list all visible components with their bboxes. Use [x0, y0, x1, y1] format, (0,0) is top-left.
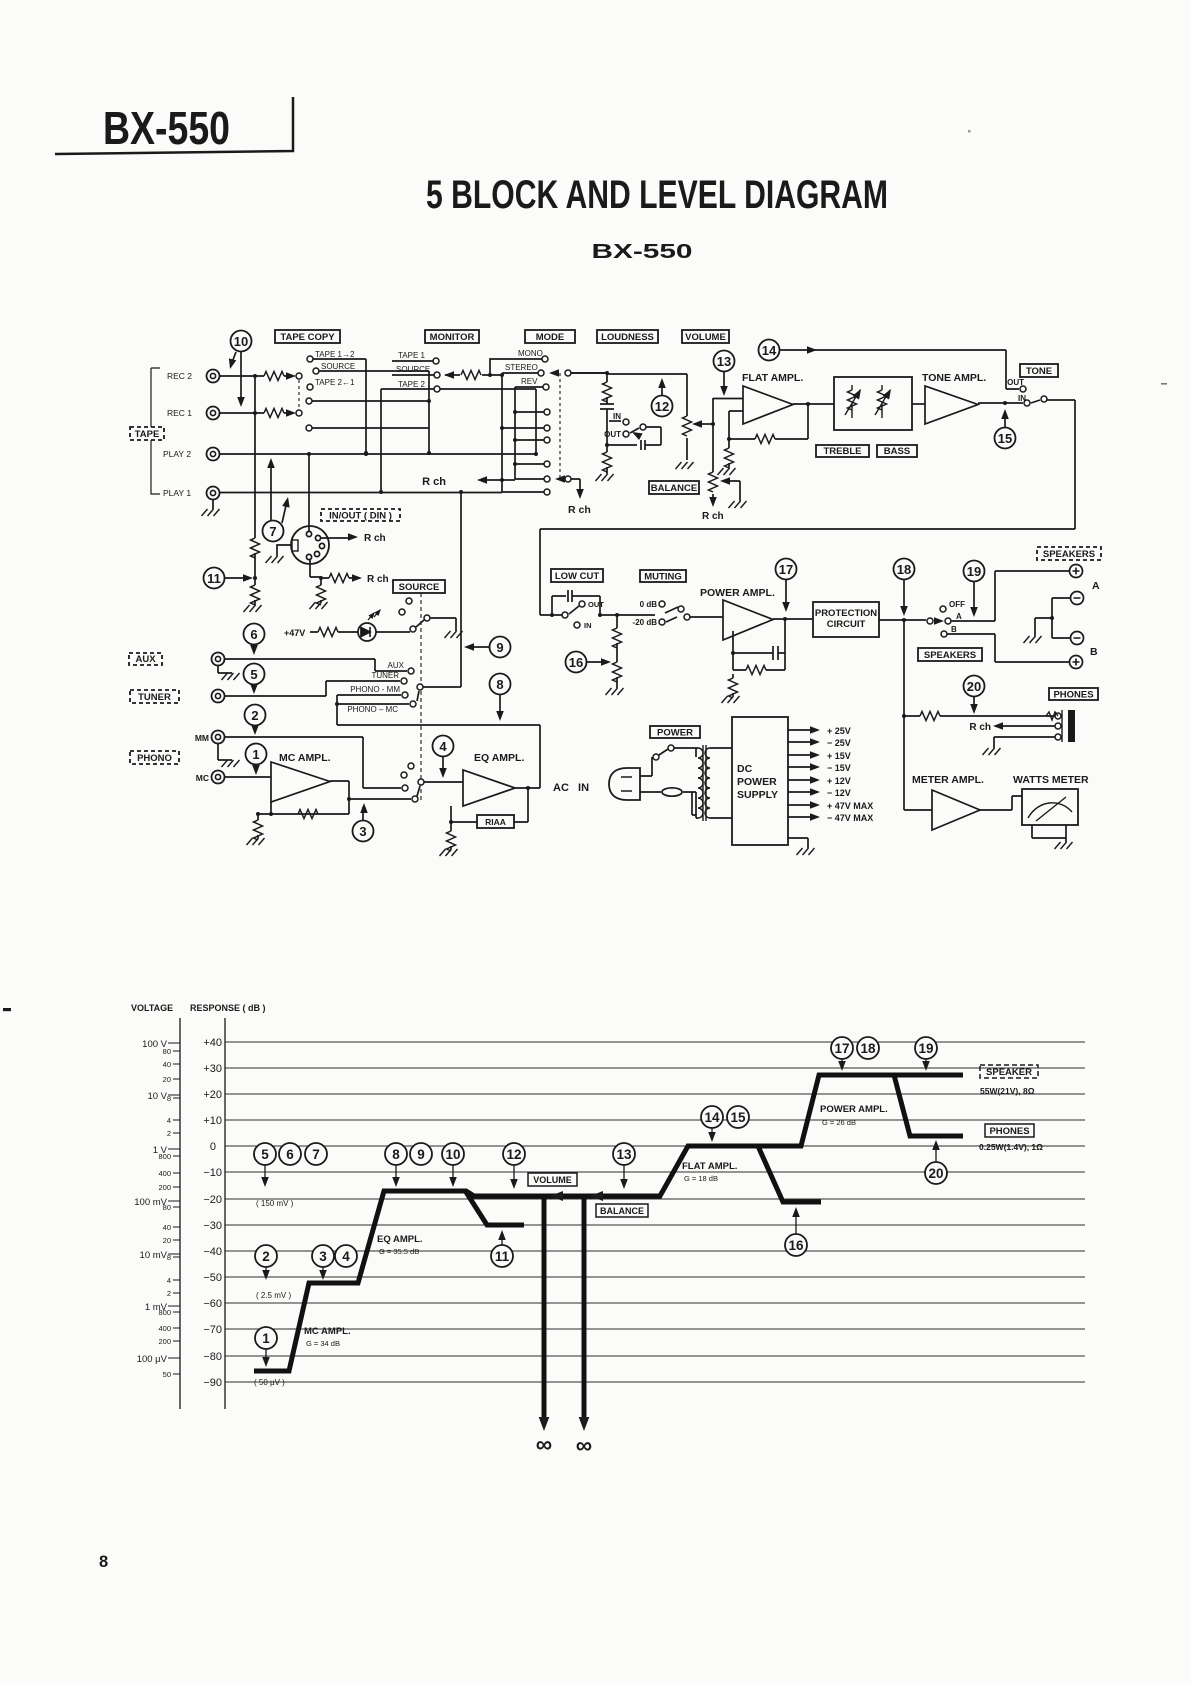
svg-text:CIRCUIT: CIRCUIT	[827, 619, 866, 630]
svg-text:4: 4	[167, 1276, 171, 1285]
svg-text:1: 1	[262, 1331, 270, 1346]
svg-text:PLAY 1: PLAY 1	[163, 488, 191, 498]
svg-text:100 µV: 100 µV	[137, 1354, 168, 1365]
svg-text:9: 9	[496, 640, 503, 655]
svg-text:METER AMPL.: METER AMPL.	[912, 774, 984, 786]
svg-text:G = 35.5 dB: G = 35.5 dB	[379, 1247, 419, 1256]
svg-text:3: 3	[319, 1249, 327, 1264]
svg-text:G = 18 dB: G = 18 dB	[684, 1174, 718, 1183]
svg-text:B: B	[1090, 646, 1098, 658]
svg-text:A: A	[1092, 580, 1100, 592]
svg-text:14: 14	[704, 1110, 720, 1125]
svg-text:R ch: R ch	[422, 476, 446, 488]
svg-text:−80: −80	[203, 1351, 222, 1363]
svg-text:R ch: R ch	[367, 574, 389, 585]
svg-text:STEREO: STEREO	[505, 363, 538, 372]
svg-text:6: 6	[250, 627, 257, 642]
svg-text:A: A	[956, 612, 962, 621]
svg-text:11: 11	[207, 571, 221, 586]
svg-text:+47V: +47V	[284, 628, 305, 638]
svg-text:PROTECTION: PROTECTION	[815, 608, 877, 619]
svg-text:−70: −70	[203, 1324, 222, 1336]
svg-text:−10: −10	[203, 1167, 222, 1179]
svg-text:5: 5	[250, 667, 257, 682]
svg-text:MUTING: MUTING	[644, 572, 681, 583]
svg-text:55W(21V), 8Ω: 55W(21V), 8Ω	[980, 1086, 1035, 1096]
svg-text:19: 19	[918, 1041, 933, 1056]
svg-text:+20: +20	[203, 1089, 222, 1101]
svg-text:8: 8	[496, 677, 503, 692]
svg-text:0 dB: 0 dB	[640, 600, 658, 609]
svg-text:-20 dB: -20 dB	[633, 618, 658, 627]
svg-text:POWER: POWER	[737, 776, 777, 788]
svg-text:IN: IN	[1018, 394, 1026, 403]
svg-text:50: 50	[163, 1370, 171, 1379]
svg-text:20: 20	[928, 1166, 943, 1181]
svg-text:SUPPLY: SUPPLY	[737, 789, 778, 801]
svg-text:+ 15V: + 15V	[827, 751, 851, 761]
svg-text:18: 18	[897, 562, 911, 577]
svg-text:R ch: R ch	[568, 504, 591, 516]
svg-text:AC IN: AC IN	[553, 782, 589, 794]
svg-text:400: 400	[158, 1324, 171, 1333]
svg-text:MC AMPL.: MC AMPL.	[279, 752, 331, 764]
svg-text:4: 4	[342, 1249, 350, 1264]
svg-text:12: 12	[655, 399, 669, 414]
svg-text:8: 8	[99, 1553, 108, 1571]
svg-text:10 V: 10 V	[147, 1091, 167, 1102]
svg-text:− 47V MAX: − 47V MAX	[827, 813, 873, 823]
svg-text:BX-550: BX-550	[103, 102, 230, 154]
svg-text:17: 17	[779, 562, 793, 577]
svg-text:MONITOR: MONITOR	[430, 332, 475, 343]
svg-text:15: 15	[998, 431, 1012, 446]
svg-text:∞: ∞	[576, 1432, 592, 1458]
svg-text:PHONO - MM: PHONO - MM	[350, 685, 400, 694]
svg-text:−50: −50	[203, 1272, 222, 1284]
svg-text:TREBLE: TREBLE	[824, 446, 862, 457]
svg-text:0.25W(1.4V), 1Ω: 0.25W(1.4V), 1Ω	[979, 1142, 1043, 1152]
svg-text:−30: −30	[203, 1220, 222, 1232]
svg-text:200: 200	[158, 1337, 171, 1346]
svg-text:IN: IN	[584, 621, 592, 630]
svg-text:B: B	[951, 625, 957, 634]
svg-text:20: 20	[163, 1236, 171, 1245]
svg-text:2: 2	[251, 708, 258, 723]
svg-text:AUX: AUX	[135, 654, 156, 665]
svg-text:40: 40	[163, 1060, 171, 1069]
svg-text:0: 0	[210, 1141, 216, 1153]
svg-text:800: 800	[158, 1308, 171, 1317]
svg-text:3: 3	[359, 824, 366, 839]
svg-text:MM: MM	[195, 733, 209, 743]
svg-text:R ch: R ch	[702, 511, 724, 522]
svg-text:8: 8	[167, 1253, 171, 1262]
svg-text:TONE: TONE	[1026, 366, 1052, 377]
svg-text:16: 16	[569, 655, 583, 670]
svg-text:AUX: AUX	[388, 661, 405, 670]
svg-text:PLAY 2: PLAY 2	[163, 449, 191, 459]
svg-text:15: 15	[730, 1110, 746, 1125]
svg-text:G = 26 dB: G = 26 dB	[822, 1118, 856, 1127]
svg-text:+30: +30	[203, 1063, 222, 1075]
svg-text:MONO: MONO	[518, 349, 543, 358]
svg-text:REV: REV	[521, 377, 538, 386]
svg-text:BASS: BASS	[884, 446, 910, 457]
svg-text:5: 5	[261, 1147, 269, 1162]
svg-text:TAPE: TAPE	[135, 429, 160, 440]
svg-text:+ 12V: + 12V	[827, 776, 851, 786]
svg-text:REC 2: REC 2	[167, 371, 192, 381]
svg-text:+10: +10	[203, 1115, 222, 1127]
svg-text:SOURCE: SOURCE	[321, 362, 355, 371]
svg-text:10: 10	[234, 334, 248, 349]
svg-text:TAPE 2: TAPE 2	[398, 380, 426, 389]
svg-text:G = 34 dB: G = 34 dB	[306, 1339, 340, 1348]
svg-text:4: 4	[167, 1116, 171, 1125]
svg-text:18: 18	[860, 1041, 876, 1056]
svg-text:12: 12	[506, 1147, 521, 1162]
svg-text:SPEAKERS: SPEAKERS	[1043, 549, 1095, 560]
svg-text:+ 47V MAX: + 47V MAX	[827, 801, 873, 811]
svg-text:8: 8	[167, 1094, 171, 1103]
svg-text:16: 16	[788, 1238, 804, 1253]
svg-text:MC AMPL.: MC AMPL.	[304, 1326, 351, 1337]
svg-text:2: 2	[262, 1249, 270, 1264]
svg-text:FLAT AMPL.: FLAT AMPL.	[742, 372, 803, 384]
svg-text:1: 1	[252, 747, 259, 762]
svg-text:EQ AMPL.: EQ AMPL.	[377, 1234, 423, 1245]
svg-text:− 12V: − 12V	[827, 788, 851, 798]
svg-text:FLAT AMPL.: FLAT AMPL.	[682, 1161, 737, 1172]
svg-text:RESPONSE ( dB ): RESPONSE ( dB )	[190, 1003, 266, 1013]
svg-text:EQ AMPL.: EQ AMPL.	[474, 752, 524, 764]
svg-text:( 150 mV ): ( 150 mV )	[256, 1199, 294, 1208]
svg-text:2: 2	[167, 1289, 171, 1298]
svg-text:4: 4	[439, 739, 447, 754]
svg-text:80: 80	[163, 1047, 171, 1056]
svg-text:POWER: POWER	[657, 728, 693, 739]
svg-text:TUNER: TUNER	[138, 692, 171, 703]
svg-text:17: 17	[834, 1041, 849, 1056]
svg-text:VOLUME: VOLUME	[533, 1175, 572, 1185]
svg-text:POWER AMPL.: POWER AMPL.	[700, 587, 775, 599]
svg-text:14: 14	[762, 343, 777, 358]
svg-text:MODE: MODE	[536, 332, 565, 343]
svg-text:10: 10	[445, 1147, 460, 1162]
svg-text:LOW CUT: LOW CUT	[555, 571, 600, 582]
svg-text:R ch: R ch	[364, 533, 386, 544]
svg-text:OFF: OFF	[949, 600, 965, 609]
svg-text:LOUDNESS: LOUDNESS	[601, 332, 654, 343]
svg-text:IN: IN	[613, 412, 621, 421]
svg-text:PHONO: PHONO	[137, 753, 172, 764]
svg-text:PHONES: PHONES	[989, 1126, 1029, 1137]
svg-text:R ch: R ch	[969, 722, 991, 733]
svg-text:( 2.5 mV ): ( 2.5 mV )	[256, 1291, 291, 1300]
svg-text:−20: −20	[203, 1194, 222, 1206]
svg-text:∞: ∞	[536, 1431, 552, 1457]
svg-text:7: 7	[312, 1147, 320, 1162]
svg-text:RIAA: RIAA	[485, 817, 506, 827]
svg-text:10 mV: 10 mV	[140, 1250, 168, 1261]
svg-text:OUT: OUT	[588, 600, 604, 609]
svg-text:DC: DC	[737, 763, 753, 775]
svg-text:+40: +40	[203, 1037, 222, 1049]
svg-text:9: 9	[417, 1147, 425, 1162]
svg-text:OUT: OUT	[1007, 378, 1024, 387]
svg-text:2: 2	[167, 1129, 171, 1138]
svg-text:MC: MC	[196, 773, 209, 783]
svg-text:PHONO – MC: PHONO – MC	[347, 705, 398, 714]
svg-text:7: 7	[269, 524, 276, 539]
svg-text:TAPE 2←1: TAPE 2←1	[315, 378, 355, 387]
svg-text:TAPE 1→2: TAPE 1→2	[315, 350, 355, 359]
svg-text:VOLTAGE: VOLTAGE	[131, 1003, 173, 1013]
svg-text:( 50 µV ): ( 50 µV )	[254, 1378, 285, 1387]
svg-text:40: 40	[163, 1223, 171, 1232]
svg-text:REC 1: REC 1	[167, 408, 192, 418]
svg-text:400: 400	[158, 1169, 171, 1178]
svg-text:800: 800	[158, 1152, 171, 1161]
svg-text:BALANCE: BALANCE	[651, 483, 697, 494]
svg-text:PHONES: PHONES	[1053, 690, 1093, 701]
svg-text:SOURCE: SOURCE	[396, 365, 430, 374]
svg-text:OUT: OUT	[604, 430, 621, 439]
svg-text:IN/OUT ( DIN ): IN/OUT ( DIN )	[329, 511, 392, 522]
svg-text:POWER AMPL.: POWER AMPL.	[820, 1104, 888, 1115]
svg-text:SOURCE: SOURCE	[399, 582, 440, 593]
svg-text:20: 20	[163, 1075, 171, 1084]
svg-text:8: 8	[392, 1147, 400, 1162]
svg-text:TONE AMPL.: TONE AMPL.	[922, 372, 986, 384]
svg-text:BX-550: BX-550	[592, 241, 693, 263]
svg-text:19: 19	[967, 564, 981, 579]
svg-text:TUNER: TUNER	[371, 671, 399, 680]
svg-text:TAPE 1: TAPE 1	[398, 351, 426, 360]
svg-text:20: 20	[967, 679, 981, 694]
svg-text:6: 6	[286, 1147, 294, 1162]
svg-text:5 BLOCK AND LEVEL DIAGRAM: 5 BLOCK AND LEVEL DIAGRAM	[426, 173, 888, 217]
svg-text:− 25V: − 25V	[827, 738, 851, 748]
svg-text:200: 200	[158, 1183, 171, 1192]
svg-text:VOLUME: VOLUME	[685, 332, 726, 343]
svg-text:80: 80	[163, 1203, 171, 1212]
svg-text:BALANCE: BALANCE	[600, 1206, 644, 1216]
svg-text:TAPE COPY: TAPE COPY	[280, 332, 335, 343]
svg-text:13: 13	[717, 354, 731, 369]
svg-text:SPEAKER: SPEAKER	[986, 1067, 1032, 1078]
svg-text:13: 13	[616, 1147, 632, 1162]
svg-text:11: 11	[495, 1249, 510, 1264]
svg-text:−40: −40	[203, 1246, 222, 1258]
svg-text:+ 25V: + 25V	[827, 726, 851, 736]
svg-text:SPEAKERS: SPEAKERS	[924, 650, 976, 661]
svg-text:− 15V: − 15V	[827, 763, 851, 773]
svg-text:−90: −90	[203, 1377, 222, 1389]
svg-text:−60: −60	[203, 1298, 222, 1310]
svg-text:WATTS METER: WATTS METER	[1013, 774, 1089, 786]
